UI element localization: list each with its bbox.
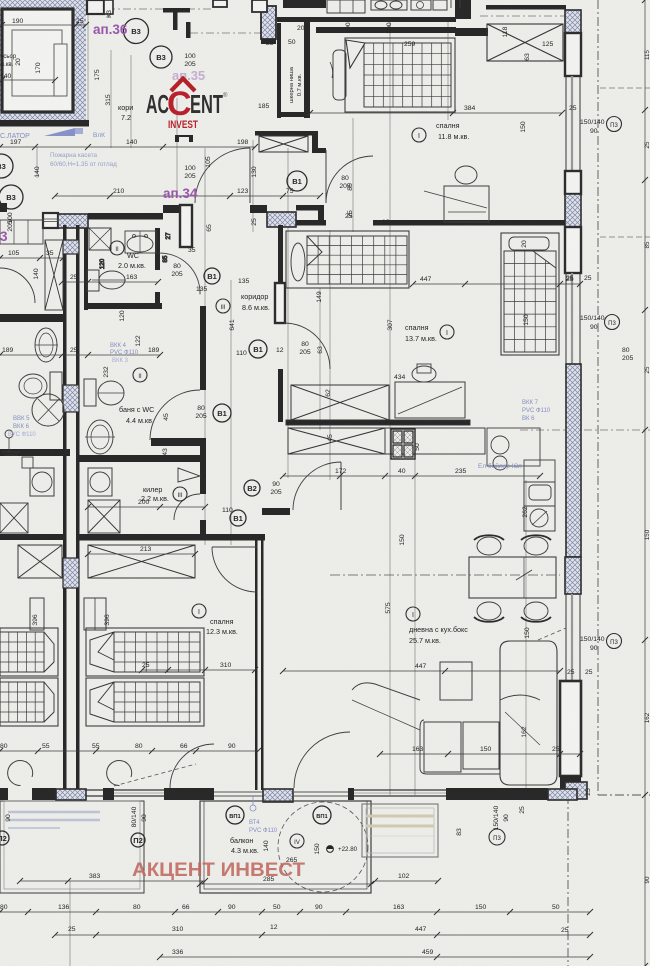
niche hatch block — [261, 6, 276, 39]
upper apt furniture — [327, 0, 365, 13]
WC left wall — [84, 228, 88, 310]
door bath — [150, 390, 200, 440]
circle ВП1 — [313, 806, 331, 824]
corridor bottom wall — [262, 508, 290, 515]
bath sink — [87, 420, 113, 454]
right wall: hatch + pillars + windows — [565, 10, 581, 33]
WC/bath divider — [84, 303, 162, 309]
kitchen counter — [288, 428, 385, 454]
door killer — [174, 494, 200, 520]
bedroom 11.8 bottom wall — [283, 220, 326, 226]
dims top-left — [2, 24, 86, 26]
WC label — [110, 241, 124, 255]
entry door ap — [249, 148, 251, 203]
upper apartment dark band — [283, 0, 326, 8]
bath right wall — [200, 306, 206, 390]
circle B1 — [287, 171, 307, 191]
niche left wall — [277, 23, 281, 118]
right kitchen column — [524, 460, 555, 482]
door living — [340, 462, 342, 510]
circle B3 — [124, 19, 149, 44]
bedroom13.7/kitchen divider wall — [286, 420, 470, 425]
wardrobe X top-right — [487, 24, 563, 61]
sofa — [500, 641, 557, 785]
left apt kitchen — [0, 220, 43, 244]
door frame U — [175, 135, 179, 142]
killer label — [173, 487, 187, 501]
party wall — [63, 225, 67, 790]
small shafts above core — [87, 0, 104, 14]
square table — [440, 662, 472, 700]
bath label — [133, 368, 147, 382]
left neighbour balcony — [0, 801, 144, 893]
step wall — [455, 28, 488, 36]
circle B2 — [244, 480, 260, 496]
room label bedroom 13.7 — [440, 325, 454, 339]
corridor label — [216, 299, 230, 313]
stove — [391, 429, 415, 459]
bedroom 11.8 top wall lower — [316, 27, 456, 33]
circle B1 — [230, 510, 246, 526]
bath bottom wall — [78, 455, 206, 462]
bed bedroom 11.8 — [345, 38, 455, 112]
wardrobe X 13.7 — [291, 385, 389, 420]
killer bottom wall — [78, 534, 265, 541]
door bedroom 12.3 — [212, 546, 257, 548]
room label bedroom 11.8 — [412, 128, 426, 142]
pillar top — [455, 0, 471, 19]
sink circles — [491, 436, 509, 454]
circle П2 — [131, 833, 145, 847]
bed bedroom 13.7 — [286, 231, 409, 288]
wall stub entry ap36 — [163, 8, 190, 13]
niche bottom wall — [281, 112, 310, 117]
bedroom 11.8 top wall — [277, 17, 456, 22]
circle B1 — [213, 404, 231, 422]
circle B1 — [249, 340, 267, 358]
entry wall — [163, 205, 192, 213]
circle B3 — [0, 185, 23, 209]
neighbour balcony right — [362, 804, 438, 857]
living label — [406, 607, 420, 621]
bottom wall segments — [0, 788, 8, 800]
logo ACCENT INVEST — [171, 79, 195, 92]
balcony dashed circle — [278, 802, 368, 892]
left apt door — [0, 268, 35, 303]
stair core hatch — [0, 0, 86, 121]
bedroom 12.3 right wall — [255, 540, 258, 790]
elevator room — [2, 9, 73, 112]
killer right wall — [200, 462, 206, 494]
core bottom wall — [0, 120, 89, 127]
corridor top wall + wardrobe — [255, 131, 312, 136]
wardrobe left hall — [45, 240, 63, 310]
circle B1 — [204, 268, 220, 284]
bedroom 12.3 label — [192, 604, 206, 618]
WC right wall — [155, 228, 160, 270]
circle B3 — [0, 154, 13, 178]
killer cabinets — [88, 500, 120, 533]
top wall right section — [486, 5, 566, 10]
balcony slab — [200, 801, 371, 893]
left apt cabinets — [18, 545, 62, 578]
balcony door arcs — [8, 761, 33, 786]
door bedroom 11.8 — [325, 150, 327, 203]
left apt fixtures — [35, 328, 57, 362]
WC top wall — [43, 213, 58, 228]
niche right wall — [304, 22, 310, 118]
door WC — [158, 253, 200, 294]
beds bedroom 12.3 — [86, 628, 204, 676]
bed 2 bedroom 13.7 — [501, 233, 559, 355]
WC shower + sink + toilet — [89, 228, 111, 250]
desk 11.8 — [444, 186, 489, 222]
dining table — [469, 557, 556, 598]
balcony label — [290, 834, 304, 848]
left apt beds — [0, 628, 58, 676]
bath toilet — [84, 379, 96, 406]
circle ВП1 — [226, 806, 244, 824]
circle П2 — [0, 831, 9, 845]
corridor right wall — [278, 225, 283, 289]
dresser 13.7 — [395, 382, 465, 418]
washing machines — [88, 468, 112, 496]
circle B3 — [150, 46, 172, 68]
door bedroom 13.7 — [284, 323, 330, 369]
